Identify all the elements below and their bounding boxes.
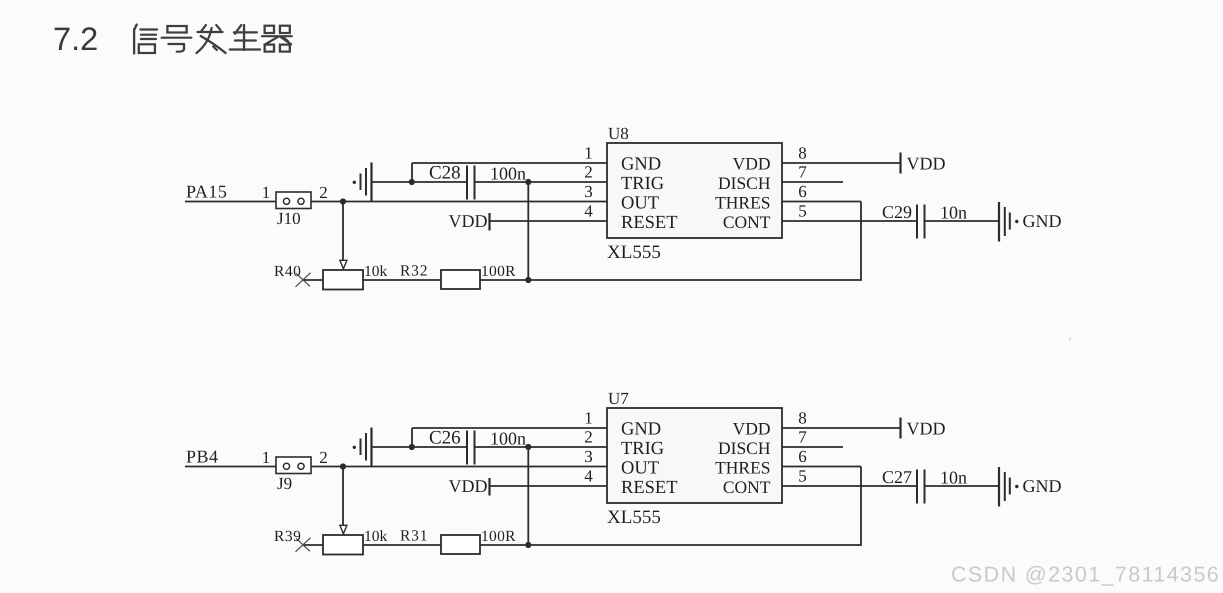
svg-text:R39: R39 (274, 528, 301, 545)
svg-text:PA15: PA15 (186, 182, 227, 202)
svg-text:CSDN @2301_78114356: CSDN @2301_78114356 (951, 563, 1220, 587)
svg-text:J9: J9 (277, 474, 292, 493)
svg-text:U8: U8 (608, 124, 629, 143)
svg-text:C26: C26 (429, 428, 461, 449)
svg-text:C29: C29 (882, 202, 912, 222)
svg-text:J10: J10 (277, 209, 301, 228)
svg-text:U7: U7 (608, 389, 629, 408)
svg-text:C27: C27 (882, 467, 912, 487)
svg-text:7.2: 7.2 (53, 21, 98, 57)
svg-text:C28: C28 (429, 163, 461, 184)
svg-text:R40: R40 (274, 263, 301, 280)
svg-text:PB4: PB4 (186, 447, 219, 467)
svg-text:R32: R32 (400, 263, 428, 280)
svg-text:R31: R31 (400, 528, 428, 545)
